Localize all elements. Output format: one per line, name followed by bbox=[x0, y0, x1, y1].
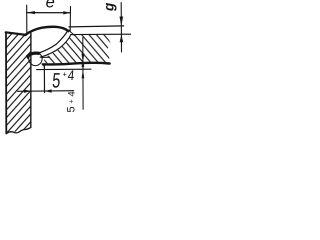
root gap line bbox=[42, 56, 50, 58]
horizontal 5+4 dimension line bbox=[18, 90, 74, 93]
hatch tick at weld toe bbox=[69, 31, 74, 35]
dimension e: dimension line bbox=[27, 12, 71, 14]
dimension e: right arrow bbox=[63, 11, 70, 14]
horizontal 5+4: left arrow (tip at plate face) bbox=[24, 90, 31, 93]
svg-text:5: 5 bbox=[51, 69, 61, 92]
dimension e: left arrow bbox=[27, 11, 35, 14]
left plate left edge bbox=[5, 33, 7, 134]
left plate right edge bbox=[30, 33, 32, 127]
svg-text:e: e bbox=[46, 0, 55, 12]
dimension e: right extension line bbox=[69, 6, 71, 31]
vertical 5+4: offset line below plate bbox=[37, 68, 91, 70]
horizontal plate bottom edge bbox=[43, 63, 110, 65]
horizontal 5+4: reference line bbox=[43, 65, 45, 92]
fusion line upper (bevel double line 1) bbox=[37, 31, 68, 53]
horizontal 5+4: right arrow (tip at reference line) bbox=[45, 89, 52, 92]
root bead blob left hook bbox=[28, 54, 30, 58]
svg-text:4: 4 bbox=[67, 67, 75, 83]
left vertical plate hatch bbox=[6, 33, 31, 134]
weld toe junction wedge bbox=[66, 29, 71, 33]
vertical 5+4: in-plate arrow (down, tip at plate bottom) bbox=[81, 54, 84, 62]
dimension g: lower arrow (up) bbox=[120, 35, 124, 43]
vertical 5+4: arrow pair between lines bbox=[82, 62, 85, 67]
svg-text:5+4: 5+4 bbox=[66, 89, 78, 113]
dimension g: vertical line bbox=[120, 3, 122, 52]
vertical 5+4: lower arrow (up, tip at offset line) bbox=[82, 70, 85, 79]
weld face arc (cover pass) bbox=[25, 27, 68, 35]
left plate top edge bbox=[6, 32, 26, 35]
reference line top wedge bbox=[42, 64, 45, 68]
vertical 5+4: dimension line bbox=[82, 38, 84, 110]
fusion line lower (bevel double line 2) bbox=[40, 35, 70, 57]
root bead solid blob (upper-left) bbox=[28, 53, 39, 56]
weld face line (g reference, upper) bbox=[69, 26, 124, 27]
svg-text:+: + bbox=[63, 70, 68, 79]
dimension g: upper arrow (down) bbox=[120, 17, 124, 27]
root weld bead circle bbox=[29, 52, 42, 65]
dimension e: left extension line bbox=[26, 5, 28, 33]
left plate bottom break line bbox=[6, 127, 31, 133]
horizontal plate hatch bbox=[44, 35, 110, 64]
horizontal plate top surface line bbox=[71, 33, 131, 35]
svg-text:g: g bbox=[102, 2, 117, 12]
